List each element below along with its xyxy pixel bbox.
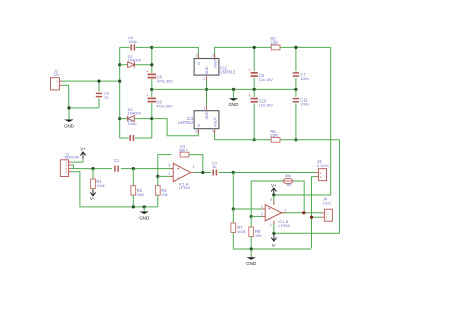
svg-text:10u 16V: 10u 16V	[259, 78, 274, 82]
svg-text:VOUT: VOUT	[213, 58, 217, 69]
svg-text:3: 3	[212, 130, 214, 134]
svg-text:100n: 100n	[300, 102, 308, 106]
svg-text:4: 4	[270, 223, 272, 227]
svg-text:1: 1	[285, 209, 287, 213]
svg-text:3: 3	[212, 54, 214, 58]
svg-text:−: −	[268, 216, 271, 222]
svg-text:GND: GND	[139, 215, 150, 220]
svg-text:1u: 1u	[104, 95, 108, 100]
svg-text:3: 3	[168, 164, 170, 168]
svg-text:470u 35V: 470u 35V	[157, 80, 174, 84]
svg-text:8: 8	[270, 198, 272, 202]
svg-text:GND: GND	[229, 102, 240, 107]
svg-text:GND: GND	[246, 261, 257, 266]
svg-text:LF353: LF353	[278, 223, 290, 228]
svg-text:10K: 10K	[255, 234, 262, 238]
svg-text:100n: 100n	[300, 77, 308, 81]
svg-text:VOUT: VOUT	[213, 116, 217, 127]
svg-text:VI: VI	[197, 62, 201, 65]
svg-text:2: 2	[203, 77, 205, 81]
svg-text:1: 1	[193, 165, 195, 169]
svg-text:100K: 100K	[237, 230, 246, 234]
svg-text:3: 3	[261, 205, 263, 209]
svg-text:GND: GND	[64, 123, 75, 128]
svg-text:1u: 1u	[212, 165, 216, 169]
svg-text:V-: V-	[90, 196, 95, 201]
svg-text:10u 16V: 10u 16V	[259, 103, 274, 107]
svg-text:+: +	[248, 93, 251, 98]
svg-text:1N4004: 1N4004	[128, 59, 141, 63]
svg-text:100p: 100p	[128, 39, 138, 44]
svg-text:R9: R9	[287, 183, 292, 187]
svg-text:LM7812: LM7812	[220, 70, 236, 75]
svg-text:68k7: 68k7	[179, 148, 187, 152]
svg-text:+: +	[146, 93, 149, 98]
svg-text:+: +	[177, 166, 180, 172]
svg-text:2: 2	[168, 172, 170, 176]
svg-text:12V ~: 12V ~	[53, 73, 63, 77]
svg-text:V-: V-	[272, 243, 277, 248]
svg-text:470u 35V: 470u 35V	[156, 105, 173, 109]
svg-text:V+: V+	[271, 183, 277, 188]
svg-text:C1: C1	[114, 158, 120, 163]
svg-text:LM7912: LM7912	[178, 120, 194, 125]
svg-text:+: +	[268, 207, 271, 213]
svg-text:22R: 22R	[270, 133, 278, 138]
svg-text:GND: GND	[205, 111, 209, 119]
svg-text:+: +	[248, 68, 251, 73]
svg-text:SENSOR: SENSOR	[64, 156, 79, 160]
svg-text:1V/G: 1V/G	[323, 201, 332, 205]
svg-text:LF353: LF353	[179, 185, 191, 190]
svg-text:1N4004: 1N4004	[128, 112, 141, 116]
svg-text:0.1V/G: 0.1V/G	[317, 164, 329, 168]
svg-text:1: 1	[203, 106, 205, 110]
svg-text:GND: GND	[205, 66, 209, 74]
svg-text:+: +	[146, 69, 149, 74]
svg-text:VI: VI	[197, 124, 201, 127]
svg-text:100p: 100p	[128, 121, 138, 126]
svg-text:50k: 50k	[285, 174, 291, 178]
svg-text:1: 1	[195, 54, 197, 58]
svg-text:22R: 22R	[270, 41, 278, 46]
svg-text:10k: 10k	[161, 193, 167, 197]
svg-text:2M2: 2M2	[137, 193, 144, 197]
svg-text:2: 2	[261, 212, 263, 216]
svg-text:2: 2	[195, 130, 197, 134]
svg-text:V+: V+	[80, 146, 86, 151]
svg-text:100k: 100k	[96, 184, 104, 188]
